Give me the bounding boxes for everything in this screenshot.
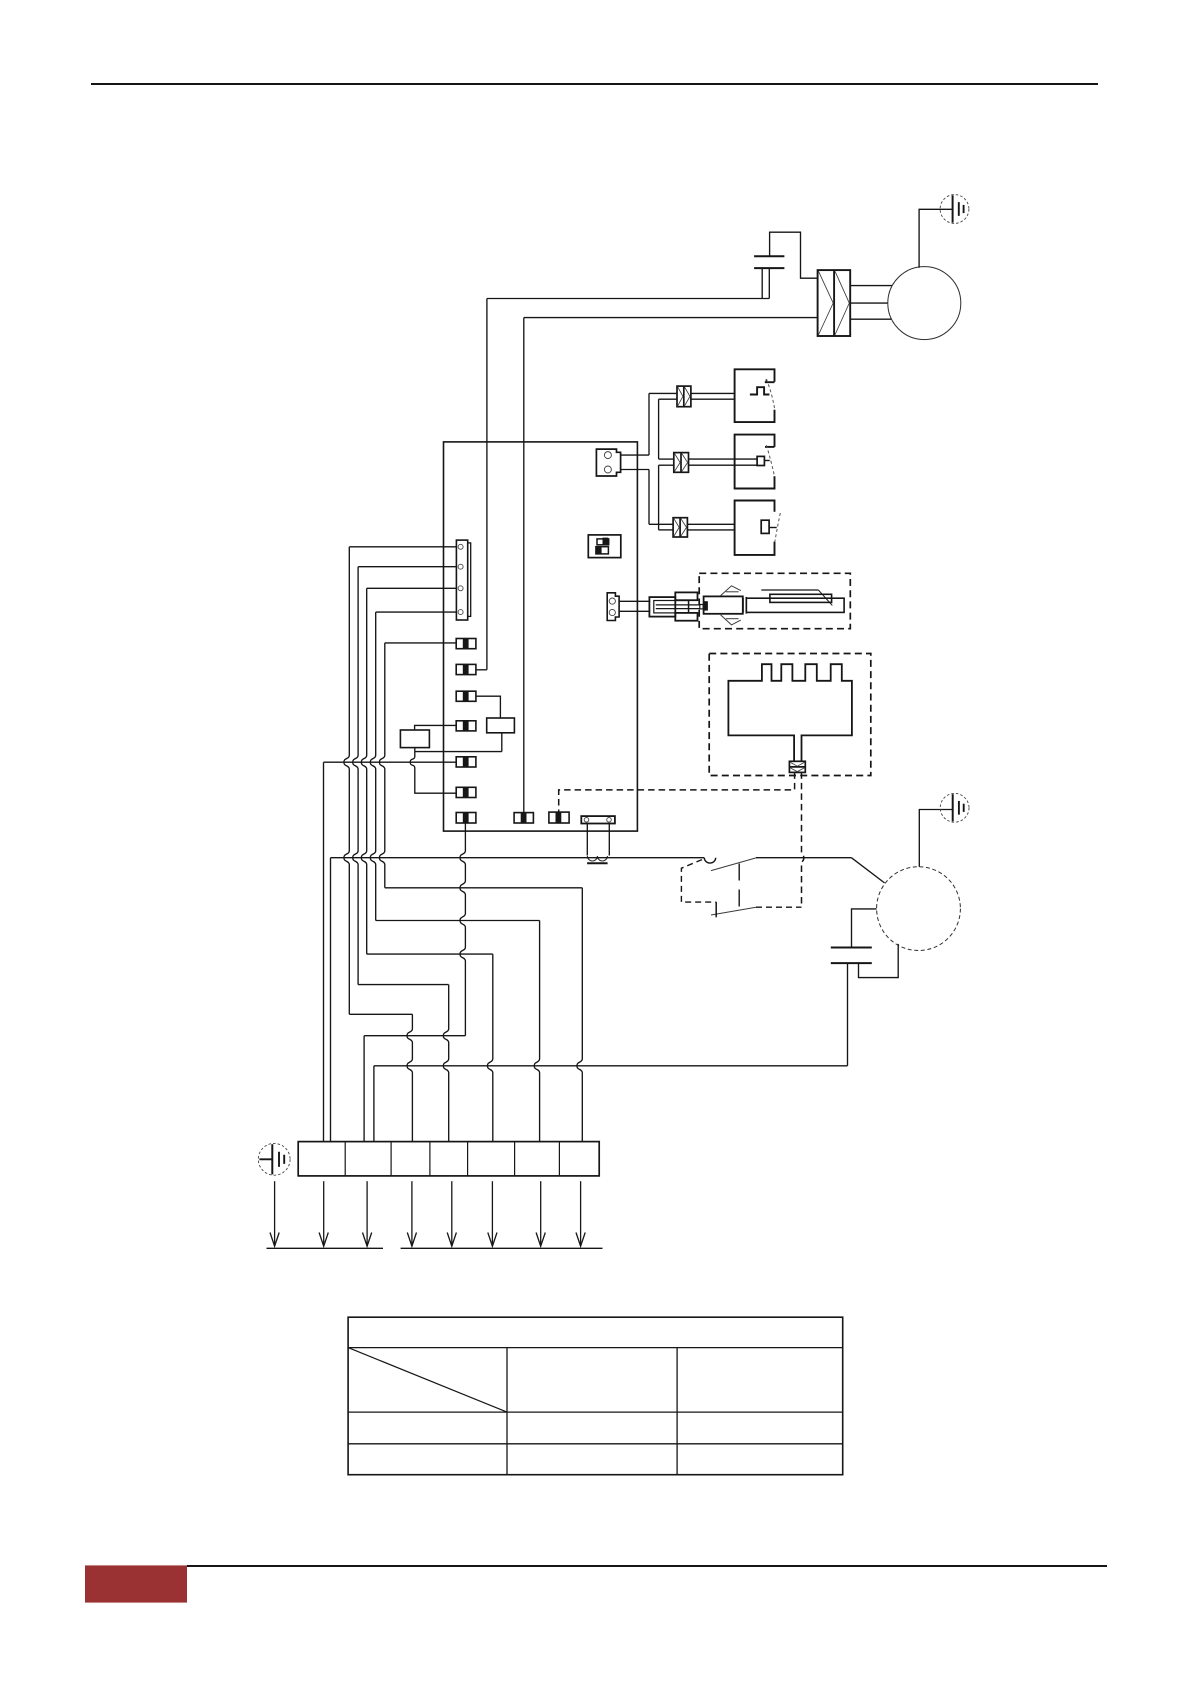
wire bus A to connector X4 [649,392,677,394]
igniter bottom terminal [675,613,697,621]
wire net-B horizontal (connector X1 pin2 to board) [524,317,818,319]
spark plug body [704,596,743,613]
plug symbol P2 (mains plug right) [940,793,969,822]
table header diagonal [348,1348,507,1413]
block J9 [514,813,533,823]
wire J8 horizontal to terminal 3 [364,1035,465,1037]
capacitor C2 bottom lead to motor [859,944,899,978]
wire X1 to motor M1 (3 leads) [850,285,892,287]
door switch S1 contact seat (hook) [704,858,715,863]
block J6 [456,757,476,767]
table row lines [348,1347,843,1349]
spark plug lead line [761,589,818,591]
wire bus B to connector X4 [659,398,677,400]
relay box R2 [400,730,429,748]
wire C2 to terminal 4 (long) [847,963,849,1066]
wire bus B to connector X5 lower [659,464,674,466]
dashed enclosure (burner) [709,654,871,776]
igniter tip [700,605,703,609]
plug symbol P3 (strip ground) [258,1143,290,1175]
wire W4 vertical [370,612,375,920]
wire W4 from J1 pin4 [376,611,457,613]
wire block J4 to relay R1 [476,696,501,718]
relay box R1 [487,718,515,733]
arrow group underline left [267,1247,384,1249]
capacitor C1 bottom leads [761,268,763,298]
spark plug insulator [746,598,844,612]
wire W1 from J1 pin1 [349,546,457,548]
wire W5 vertical [379,643,384,888]
relay K1 box [588,535,621,558]
block J7 [456,787,476,797]
igniter core [654,601,689,613]
output arrows (8) [274,1181,276,1246]
gas valve switch SW2 body [735,435,775,489]
wire net-A vertical into board to block J3 [486,299,488,670]
relay K1 contact a [597,539,609,545]
wire W3 vertical [361,588,366,954]
wire J6-net vertical to terminal 1 [323,762,325,1141]
wire block J3 to net-A [476,669,487,671]
wire W5 staircase [385,887,583,889]
arrow group underline right [401,1247,603,1249]
main line left end down to terminal 2 [330,858,332,1142]
SW1 thermostat contact step [750,387,770,394]
capacitor C2 top lead to motor [852,909,877,948]
transformer T1 body [581,816,615,823]
wire W3 from J1 pin3 [367,587,457,589]
main line (left section) [331,857,705,859]
footer red box [85,1565,187,1602]
door switch S1 lower post [715,902,717,918]
wire bus A to connector X6 [649,523,673,525]
page bottom rule [187,1565,1107,1567]
spark gap marks lower [721,615,741,625]
SW2 contact [757,456,764,465]
wire motor M1 to plug P1 [919,209,953,267]
wire X3 pin1 to bus A [621,454,649,456]
wire relay R1 to relay R2 (bottom link) [415,751,502,753]
block J2 [456,639,476,649]
SW1 lever (dashed) [767,379,775,410]
block J5 [456,721,476,731]
door switch S1 dashed frame [681,860,715,903]
wire W3 staircase [367,953,493,955]
wire X3 pin2 to bus A lower [621,469,649,471]
wire X4 to valve switch SW1 [691,392,735,394]
dashed wire X8 to door switch S1 [802,772,804,906]
wire bus B to connector X6 [659,529,674,531]
burner body outline [728,664,852,761]
wire W2 staircase [358,984,449,986]
terminal strip X2 [298,1142,599,1176]
SW3 lever (dashed) [775,513,781,542]
wire J8 vertical to terminal 3 [363,1036,365,1142]
wire W1 staircase [349,1013,412,1015]
relay K1 contact b [596,547,609,554]
connector J1 (panel strip) [468,543,471,617]
wire relay R1 bottom stub [501,733,503,752]
bus A lower vertical [648,470,650,525]
bus A upper vertical [648,393,650,455]
block J4 [456,691,476,701]
table column lines [506,1348,508,1475]
connector X4 (valve 1) [677,386,691,407]
page top rule [91,83,1098,85]
wire to motor M2 [851,858,884,883]
wire block J5 to relay R2 top [415,725,457,730]
motor M2 (oven fan, dashed) [877,867,961,951]
wire W5 from block J2 [385,642,456,644]
door switch S1 blade lower [711,907,756,915]
transformer T1 pickup coils [587,856,607,861]
igniter top terminal [675,592,697,600]
connector X1 (motor M1 plug) [818,270,851,336]
plug symbol P1 (mains plug top) [940,195,969,224]
wire net-B vertical into board to block J9 [523,318,525,813]
spark plug collar [742,598,744,612]
wire block J8 down with hops [460,823,465,1036]
door switch S1 blade upper [711,858,756,871]
wire motor M2 to plug P2 [919,810,952,867]
igniter coil bracket [649,597,675,617]
connector X3 (valve feed 2-pin) [596,449,620,476]
bus B lower vertical [658,465,660,530]
connector X6 (valve 3) [673,518,687,537]
transformer T1 core bar [587,862,608,864]
wire junction down to block J7 (hops y762) [410,752,456,794]
table outline [348,1317,843,1475]
capacitor C1 bottom plate [754,267,784,269]
connector X7 (igniter 2-pin) [607,593,619,621]
wire vertical to terminal 4 [373,1066,375,1142]
gas valve switch SW3 body [735,501,775,555]
wire X5 to contact inside SW2 [689,458,758,460]
SW3 contact [761,520,769,533]
wire W2 from J1 pin2 [358,566,457,568]
dashed enclosure (spark plug) [699,573,850,628]
block J3 [456,664,476,674]
capacitor C2 bottom plate [831,962,872,964]
block J10 [549,812,569,823]
capacitor C1 top plate [754,255,784,257]
wire to block J6 [324,761,457,763]
wire W1 vertical [344,547,349,1015]
spark gap marks upper [721,586,741,596]
motor M1 (hood fan motor) [888,267,961,340]
capacitor C2 top plate [831,947,872,949]
wire X6 to valve switch SW3 [687,523,734,525]
transformer T1 leads [586,824,588,856]
capacitor C1 top lead to connector X1 pin1 [770,232,818,278]
block J8 [456,813,476,824]
wire net-A horizontal (cap C1 bottom to board) [487,298,769,300]
bus B upper vertical [658,399,660,459]
wire W2 vertical [353,567,358,985]
wire X7 to igniter coil [619,600,650,602]
wire W4 staircase [376,920,540,922]
spark plug electrode sleeve [770,594,832,602]
gas valve switch SW1 body [735,369,775,422]
connector X8 (burner thermocouple) [789,761,805,772]
connector X5 (valve 2) [674,453,689,473]
wire bus B to connector X5 [659,458,674,460]
control board PCB outline [444,442,638,831]
wire R2 bottom stub to junction [414,748,416,752]
dashed wire X8 to board block J10 [559,772,795,812]
SW2 lever (dashed) [766,445,774,476]
main line (right section) [756,857,851,859]
